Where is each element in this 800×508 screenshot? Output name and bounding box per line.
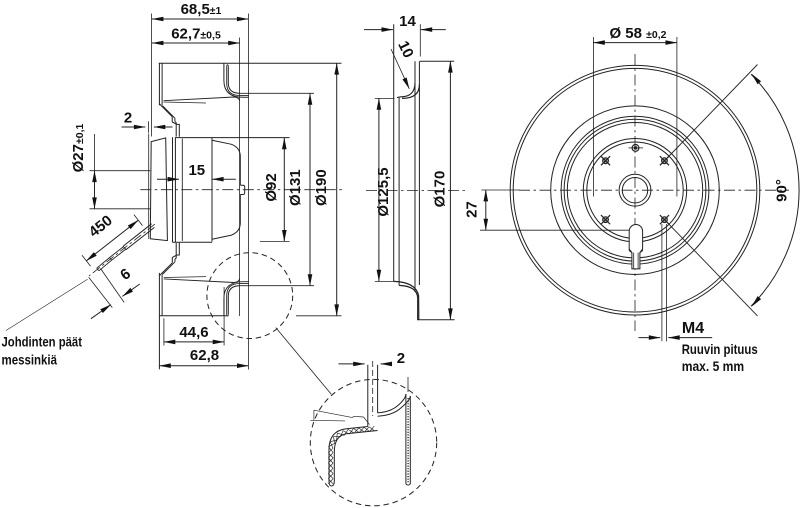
ring outer wall pair (right) (414, 61, 416, 292)
extension 14 right (419, 24, 421, 56)
detail cone upper line (407, 377, 409, 392)
90 degree arc dimension (751, 74, 799, 306)
bottom edge y=315.8 (159, 315, 227, 317)
impeller back disc (double vertical left) (158, 63, 160, 105)
shaft end boss (240, 185, 244, 194)
inlet tube bottom J-profile (224, 282, 249, 316)
cable gland (629, 225, 642, 249)
M4 screw thread extension lines (661, 224, 663, 341)
diam125,5 top extension y=98.4 (375, 97, 395, 99)
90deg arc arrowheads (752, 74, 762, 85)
leader line to label (6, 279, 88, 330)
diam131 bottom extension y=285.7 (240, 285, 314, 287)
detail shroud hatch lattice (369, 427, 375, 431)
diam131 top extension y=93.3 (240, 92, 314, 94)
top locating pin (632, 145, 639, 152)
detail tube dashed mid line (372, 361, 374, 416)
rotor dome outline (211, 138, 213, 242)
90deg leg from top-right screw (667, 65, 757, 158)
motor mounting ring column (172, 137, 174, 242)
svg-text:Ø125,5: Ø125,5 (375, 167, 392, 216)
svg-text:2: 2 (397, 350, 405, 367)
diam190 bottom extension (296, 315, 342, 317)
svg-text:44,6: 44,6 (179, 324, 208, 341)
rotor hub double circle (583, 139, 686, 242)
svg-text:M4: M4 (682, 320, 704, 337)
ring disc wall pair (left) (393, 24, 395, 281)
svg-text:14: 14 (399, 13, 416, 30)
lead wire brass end (97, 258, 110, 269)
bracket Z-tab top (double diagonal) (160, 104, 173, 117)
wall plate trapezoid (white fill) (150, 138, 167, 241)
90deg leg from bottom-right screw (667, 223, 757, 316)
svg-text:2: 2 (124, 109, 132, 126)
inlet ring rolled edge triple circle (561, 116, 709, 264)
detail shroud band with curl (hatched) (329, 427, 378, 487)
shaft double circle (619, 174, 651, 206)
extension line 68,5 right x=248.3 (inlet ring front, full height) (247, 14, 249, 370)
dimension M4 (639, 337, 661, 339)
centerline left view (140, 189, 344, 191)
detail tube walls (367, 365, 369, 427)
screw symbols M4 on diam58 pitch (603, 158, 609, 164)
extension line 62,7 right x=239.6 (shroud cone, full height) (239, 38, 241, 317)
svg-text:27: 27 (464, 201, 481, 218)
svg-text:15: 15 (188, 162, 205, 179)
plate inner edge (148, 134, 150, 239)
svg-text:90°: 90° (774, 179, 791, 202)
svg-text:62,8: 62,8 (190, 347, 219, 364)
svg-text:max. 5 mm: max. 5 mm (682, 359, 745, 374)
detail source dashed circle (207, 253, 293, 339)
centerline middle view (366, 190, 466, 192)
lead wire middle segment (110, 246, 124, 257)
leader to detail view (276, 328, 332, 395)
top edge / diam190 top extension y=63.2 (159, 62, 342, 64)
shroud top slant edge (164, 97, 240, 101)
svg-text:Ruuvin pituus: Ruuvin pituus (682, 342, 758, 357)
tick for 2-dim at x=148.4 (147, 121, 149, 132)
ring top edge + diam92 top extension y=137.9 (175, 137, 289, 139)
blade top edge line (164, 102, 206, 103)
horizontal centerline right view (519, 189, 789, 191)
detail inlet cone band (dotted) (378, 394, 406, 413)
ring bottom bell curve (399, 285, 418, 319)
svg-text:Ø170: Ø170 (432, 171, 449, 208)
shroud circle (551, 106, 720, 275)
bracket Z-tab bottom (double diagonal) (162, 262, 175, 275)
ring flange bottom edge + diam170 bottom extension y=319.8 (417, 319, 455, 321)
svg-text:Ø131: Ø131 (287, 169, 304, 206)
detail view dashed circle (310, 379, 436, 505)
svg-text:messinkiä: messinkiä (2, 351, 58, 367)
svg-text:Johdinten päät: Johdinten päät (2, 334, 83, 350)
diam125,5 bottom extension y=281.4 (375, 280, 395, 282)
shroud bottom slant edge (164, 279, 240, 283)
ring top bell curve (402, 85, 419, 99)
svg-text:Ø190: Ø190 (313, 169, 330, 206)
svg-text:Ø92: Ø92 (263, 173, 280, 201)
bracket hook bottom (172, 243, 179, 258)
inlet tube top J-profile (224, 63, 249, 97)
bracket hook top (172, 122, 179, 137)
wire axis centerline (89, 224, 155, 276)
lead wires sheath (123, 224, 151, 246)
detail blade profile thin lines (310, 419, 345, 422)
vertical centerline right view (634, 54, 636, 331)
extension line left face x=152 (151, 14, 153, 137)
blade bottom edge line (164, 276, 206, 279)
ring flange top edge + diam170 top extension y=61.2 (420, 60, 455, 62)
outer circles diam190 (510, 65, 760, 315)
ring bottom edge + diam92 bottom extension y=241.6 (173, 241, 213, 243)
